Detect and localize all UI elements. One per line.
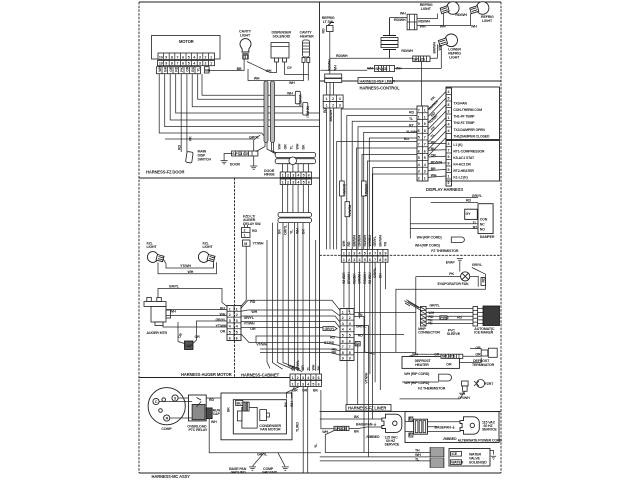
svg-text:6: 6 xyxy=(318,383,320,387)
door connector strip row1 xyxy=(280,172,311,178)
svg-text:BK: BK xyxy=(332,351,337,355)
svg-text:CAP: CAP xyxy=(213,412,221,416)
evap ground xyxy=(457,259,463,272)
svg-text:RD/WH: RD/WH xyxy=(336,54,348,58)
svg-text:HARNESS-FZ DOOR: HARNESS-FZ DOOR xyxy=(146,170,184,175)
svg-text:CAP: CAP xyxy=(185,344,193,348)
wires to damper contacts xyxy=(410,224,478,229)
svg-text:HARNESS-REF LINER: HARNESS-REF LINER xyxy=(360,79,396,83)
svg-text:K1-L2 (K): K1-L2 (K) xyxy=(453,176,467,180)
svg-text:TH2-FZ TEMP: TH2-FZ TEMP xyxy=(453,121,475,125)
bk cell top xyxy=(409,417,413,421)
svg-text:2: 2 xyxy=(244,229,246,233)
svg-text:7: 7 xyxy=(424,143,426,147)
svg-text:9: 9 xyxy=(385,251,387,255)
svg-text:1: 1 xyxy=(342,310,344,314)
svg-text:RD: RD xyxy=(322,28,326,33)
svg-text:1: 1 xyxy=(210,55,212,59)
svg-text:4: 4 xyxy=(297,181,299,185)
rip cord pill 1 xyxy=(451,237,464,242)
svg-text:HARNESS-FZ LINER: HARNESS-FZ LINER xyxy=(348,406,386,411)
svg-text:PTC RELAY: PTC RELAY xyxy=(189,428,208,432)
svg-text:GR/YL: GR/YL xyxy=(430,304,441,308)
svg-text:HARNESS-MC ASSY: HARNESS-MC ASSY xyxy=(152,474,191,479)
svg-text:GR/YL: GR/YL xyxy=(472,263,483,267)
svg-text:1: 1 xyxy=(244,234,246,238)
cabinet horizontal wire gr/yl xyxy=(241,316,340,322)
wire wh run y68.5 xyxy=(320,69,367,71)
svg-text:4: 4 xyxy=(448,90,450,94)
svg-text:YL/WH: YL/WH xyxy=(406,130,417,134)
wire vt/wh long vertical xyxy=(357,344,359,406)
svg-text:8: 8 xyxy=(171,55,173,59)
svg-text:TN: TN xyxy=(358,313,363,317)
comp m mark xyxy=(162,398,166,402)
wire comp s to relay xyxy=(178,397,188,399)
svg-text:1: 1 xyxy=(418,115,420,119)
comp terminal S xyxy=(172,395,178,401)
wire sp3 left xyxy=(367,68,375,70)
svg-text:RD/WH: RD/WH xyxy=(418,20,430,24)
wire gr/yl to splice xyxy=(254,135,261,151)
valve ground xyxy=(490,451,496,460)
svg-text:AUGER MTR: AUGER MTR xyxy=(147,331,168,335)
svg-text:GR(Y): GR(Y) xyxy=(325,327,335,331)
svg-text:2: 2 xyxy=(448,181,450,185)
wire rd to switch xyxy=(180,74,182,152)
svg-text:2: 2 xyxy=(348,251,350,255)
svg-text:WH: WH xyxy=(266,69,272,73)
cavity light bulb B1 xyxy=(240,39,251,59)
svg-text:COMP: COMP xyxy=(161,427,172,431)
svg-text:OR: OR xyxy=(185,66,189,72)
svg-text:9: 9 xyxy=(424,122,426,126)
svg-text:WH (RIP CORD): WH (RIP CORD) xyxy=(415,244,441,248)
svg-text:3: 3 xyxy=(339,104,341,108)
svg-text:6: 6 xyxy=(342,339,344,343)
svg-text:TX3-FAN: TX3-FAN xyxy=(453,102,467,106)
svg-text:GROUND: GROUND xyxy=(231,471,247,475)
svg-text:DAMPER: DAMPER xyxy=(480,235,495,239)
icemaker pin strip xyxy=(473,307,478,327)
water cell xyxy=(451,460,464,465)
svg-text:WH: WH xyxy=(342,240,346,246)
condenser outer box xyxy=(221,393,292,440)
wire heater or right xyxy=(459,358,481,363)
wire fzl wh xyxy=(158,262,217,274)
wire auger 315 xyxy=(166,315,227,317)
svg-text:1: 1 xyxy=(292,376,294,380)
wire run y120 xyxy=(170,74,319,120)
wire gr/yl auger xyxy=(158,289,227,307)
svg-text:FZRT: FZRT xyxy=(485,382,495,386)
svg-text:6: 6 xyxy=(424,149,426,153)
run capacitor cap box xyxy=(185,341,194,350)
svg-text:4: 4 xyxy=(236,325,238,329)
svg-text:7: 7 xyxy=(342,345,344,349)
svg-text:2: 2 xyxy=(287,174,289,178)
section border fz-liner bottom xyxy=(320,411,502,413)
svg-text:9: 9 xyxy=(418,122,420,126)
svg-text:WH (RIP CORD): WH (RIP CORD) xyxy=(404,372,430,376)
svg-text:SERVICE: SERVICE xyxy=(385,443,400,447)
svg-text:6: 6 xyxy=(369,258,371,262)
svg-text:FZ THERMISTOR: FZ THERMISTOR xyxy=(431,249,459,253)
icemaker link lines xyxy=(478,309,483,324)
svg-text:3: 3 xyxy=(349,322,351,326)
svg-text:7: 7 xyxy=(418,143,420,147)
svg-text:RD/WH: RD/WH xyxy=(431,160,443,164)
cabinet wire labels below vertical xyxy=(278,224,306,235)
svg-text:7: 7 xyxy=(177,55,179,59)
svg-text:10: 10 xyxy=(159,55,163,59)
section border auger/cabinet divider xyxy=(234,178,236,378)
svg-text:HEATER: HEATER xyxy=(415,363,429,367)
wires connector to lower pins xyxy=(428,143,446,177)
liner connector bars xyxy=(325,74,342,83)
wire connector to cond box verticals xyxy=(287,387,300,399)
cabinet wire rd3 xyxy=(260,349,340,351)
svg-text:RD: RD xyxy=(466,199,471,203)
wire fan right xyxy=(470,276,478,286)
hinge wire labels vertical xyxy=(278,143,306,149)
svg-text:DOOR: DOOR xyxy=(230,163,241,167)
wire relay bottom down xyxy=(209,419,321,453)
svg-text:3: 3 xyxy=(229,319,231,323)
svg-text:SPL|CE: SPL|CE xyxy=(335,427,348,431)
svg-text:OR: OR xyxy=(220,330,226,334)
capacitor stack C1 xyxy=(381,18,398,59)
svg-text:1: 1 xyxy=(448,116,450,120)
svg-text:1: 1 xyxy=(210,62,212,66)
svg-text:WH: WH xyxy=(278,143,282,149)
svg-text:3: 3 xyxy=(418,170,420,174)
svg-text:GY: GY xyxy=(287,66,293,70)
liner pin drops xyxy=(344,262,386,390)
svg-text:GROUND: GROUND xyxy=(262,471,278,475)
svg-text:3: 3 xyxy=(353,251,355,255)
liner connector top labels vertical xyxy=(342,234,388,246)
svg-text:8: 8 xyxy=(342,351,344,355)
filter box xyxy=(414,419,428,434)
svg-text:BR/WH: BR/WH xyxy=(352,235,356,247)
control pin cells column xyxy=(446,88,452,186)
svg-text:2: 2 xyxy=(418,177,420,181)
svg-text:6: 6 xyxy=(308,174,310,178)
wire filter wires xyxy=(405,419,461,432)
liner connector bottom labels vertical xyxy=(342,267,382,284)
wire auger down cap xyxy=(177,322,179,342)
control row wires upper bends xyxy=(341,109,417,249)
svg-text:4: 4 xyxy=(359,258,361,262)
refrig light switch S2 xyxy=(327,23,335,32)
svg-text:3: 3 xyxy=(424,170,426,174)
splice SP3 xyxy=(375,66,395,72)
svg-text:3: 3 xyxy=(302,383,304,387)
wires mhp to icemaker xyxy=(426,309,473,324)
svg-text:3: 3 xyxy=(292,181,294,185)
base pan ground xyxy=(249,467,256,470)
svg-text:WH: WH xyxy=(290,401,294,407)
label RD vertical evap xyxy=(481,277,486,285)
svg-text:9: 9 xyxy=(342,357,344,361)
svg-text:NO: NO xyxy=(480,227,485,231)
mhp connector strip xyxy=(420,307,426,327)
damper assembly wires top xyxy=(410,197,478,199)
svg-text:1: 1 xyxy=(424,115,426,119)
splice SP2 xyxy=(413,56,430,62)
svg-text:5: 5 xyxy=(448,155,450,159)
svg-text:BU: BU xyxy=(431,147,436,151)
svg-text:4: 4 xyxy=(342,328,344,332)
svg-text:2: 2 xyxy=(297,383,299,387)
svg-text:6: 6 xyxy=(308,181,310,185)
svg-text:WH: WH xyxy=(287,91,293,95)
dispenser solenoid L1 xyxy=(271,43,289,63)
svg-text:OR/YL: OR/YL xyxy=(296,359,300,370)
motor connector strip row1 pins 10-1 xyxy=(158,53,215,60)
svg-text:1: 1 xyxy=(448,175,450,179)
svg-text:SPL I CE: SPL I CE xyxy=(442,355,456,359)
svg-text:RD: RD xyxy=(177,145,181,150)
svg-text:6: 6 xyxy=(236,336,238,340)
svg-text:8: 8 xyxy=(171,62,173,66)
svg-text:K4-AC2 DR: K4-AC2 DR xyxy=(453,162,471,166)
svg-text:TH: TH xyxy=(415,449,420,453)
svg-text:VT/WH: VT/WH xyxy=(364,372,368,383)
relay switch diagonal xyxy=(197,398,202,407)
control left connector xyxy=(417,106,428,181)
svg-text:3: 3 xyxy=(448,110,450,114)
cabinet bar 3 xyxy=(278,213,312,218)
svg-text:LIGHT: LIGHT xyxy=(203,245,214,249)
svg-text:TN: TN xyxy=(384,241,388,246)
svg-text:SLEEVE: SLEEVE xyxy=(447,332,461,336)
section border cabinet bottom xyxy=(139,377,321,379)
wires hinge to strip xyxy=(283,164,309,172)
frame top border xyxy=(139,1,501,3)
cabinet horizontal wire rd xyxy=(241,300,340,310)
svg-text:RD/WH: RD/WH xyxy=(394,18,406,22)
labels above bottom connector vertical xyxy=(291,359,321,370)
fan run capsule xyxy=(260,410,270,421)
svg-text:BASEPAN-⏚: BASEPAN-⏚ xyxy=(435,424,456,429)
svg-text:LIGHT: LIGHT xyxy=(482,19,493,23)
svg-text:WH: WH xyxy=(251,310,257,314)
svg-text:1: 1 xyxy=(282,174,284,178)
svg-text:3: 3 xyxy=(199,62,201,66)
svg-text:RD: RD xyxy=(358,334,363,338)
cabinet horizontal wire or xyxy=(241,327,323,329)
auger delay sw connector xyxy=(242,228,251,238)
boxed label GR(Y) xyxy=(323,327,337,332)
svg-text:BK: BK xyxy=(302,144,306,149)
svg-text:3: 3 xyxy=(302,376,304,380)
svg-text:6: 6 xyxy=(349,339,351,343)
boxed label DI xyxy=(355,342,360,347)
svg-text:ALTERNATE POWER CORD: ALTERNATE POWER CORD xyxy=(458,438,503,442)
cabinet bottom connector row1 xyxy=(290,374,322,380)
ground splice xyxy=(250,156,257,169)
section border center vertical xyxy=(319,2,321,378)
svg-text:RD: RD xyxy=(431,140,436,144)
svg-text:5: 5 xyxy=(188,55,190,59)
svg-text:6: 6 xyxy=(182,62,184,66)
svg-text:LIGHT: LIGHT xyxy=(421,7,432,11)
wire terminator top xyxy=(470,349,481,351)
svg-text:RD: RD xyxy=(409,111,414,115)
svg-text:EVAP: EVAP xyxy=(446,261,456,265)
svg-text:-RIBBED: -RIBBED xyxy=(443,437,457,441)
svg-text:1: 1 xyxy=(236,307,238,311)
svg-text:5: 5 xyxy=(364,251,366,255)
svg-text:HINGE: HINGE xyxy=(264,173,275,177)
svg-text:HARNESS-CABINET: HARNESS-CABINET xyxy=(241,373,280,378)
condenser inner box xyxy=(233,400,286,434)
svg-text:WH: WH xyxy=(158,65,162,71)
svg-text:4: 4 xyxy=(448,142,450,146)
svg-text:WH/BU: WH/BU xyxy=(368,235,372,247)
svg-text:BR: BR xyxy=(431,167,436,171)
svg-text:OR: OR xyxy=(475,352,481,356)
fzl light 1 bulb B5 xyxy=(147,252,164,263)
power plug 1 xyxy=(382,414,402,432)
svg-text:EVAPORATOR FAN: EVAPORATOR FAN xyxy=(438,282,469,286)
svg-text:OR: OR xyxy=(475,346,481,350)
bk cell bottom xyxy=(409,433,413,437)
splice SP5 xyxy=(334,426,349,431)
rip cord pill 2 xyxy=(439,374,452,381)
motor connector strip row2 pins 10-1 xyxy=(158,61,215,66)
svg-text:BK: BK xyxy=(354,415,359,419)
svg-text:RD/WH: RD/WH xyxy=(401,49,413,53)
svg-text:1: 1 xyxy=(424,177,426,181)
svg-text:4: 4 xyxy=(297,174,299,178)
wire heater splice left xyxy=(409,354,441,356)
svg-text:RD/WH: RD/WH xyxy=(328,59,332,71)
svg-text:CONNECTOR: CONNECTOR xyxy=(418,331,440,335)
svg-text:-RIBBED: -RIBBED xyxy=(366,435,380,439)
svg-text:SERVICE: SERVICE xyxy=(482,428,497,432)
svg-text:5: 5 xyxy=(236,331,238,335)
svg-text:2: 2 xyxy=(205,55,207,59)
striped tube bottom xyxy=(430,458,444,468)
svg-text:HARNESS-CONTROL: HARNESS-CONTROL xyxy=(360,86,401,91)
motor wire label cells row xyxy=(157,65,211,73)
svg-text:RD: RD xyxy=(330,335,335,339)
section border ref-liner bottom xyxy=(320,80,502,82)
svg-text:SPL|CE: SPL|CE xyxy=(375,67,388,71)
svg-text:4: 4 xyxy=(359,251,361,255)
defrost terminator RT xyxy=(481,348,497,357)
motor M1 box xyxy=(152,36,221,60)
svg-text:LT SW: LT SW xyxy=(323,20,334,24)
svg-text:OR: OR xyxy=(250,327,256,331)
svg-text:VT/WH: VT/WH xyxy=(256,342,267,346)
svg-text:RD: RD xyxy=(252,229,257,233)
frame right border xyxy=(500,2,502,473)
svg-text:8: 8 xyxy=(448,103,450,107)
wire cap up right xyxy=(193,321,227,344)
control board text list xyxy=(453,102,490,180)
wire rd/wh run y58 xyxy=(330,57,438,59)
svg-text:2: 2 xyxy=(342,316,344,320)
conduit gr/yl braid xyxy=(404,300,422,311)
svg-text:TH1(DAMPER CLOSED: TH1(DAMPER CLOSED xyxy=(453,134,490,138)
svg-text:RD: RD xyxy=(482,277,486,282)
wire splice right to terminator xyxy=(463,355,481,357)
wires th wh tl xyxy=(320,431,430,461)
svg-text:RD/WH: RD/WH xyxy=(347,205,351,217)
cabinet horizontal wire wh xyxy=(241,310,340,316)
cabinet left connector C2 xyxy=(227,306,241,341)
wire c3 bottom down xyxy=(346,361,348,405)
svg-text:7: 7 xyxy=(349,345,351,349)
svg-text:7: 7 xyxy=(448,149,450,153)
gy box xyxy=(465,209,478,219)
wire sp3 right to lower bulb xyxy=(395,68,442,70)
svg-text:HEATER: HEATER xyxy=(300,35,314,39)
svg-text:TL/RD: TL/RD xyxy=(295,422,299,432)
svg-text:RD: RD xyxy=(250,300,255,304)
wire fzl right down xyxy=(213,264,215,269)
svg-text:OR: OR xyxy=(446,363,452,367)
svg-text:2: 2 xyxy=(348,258,350,262)
svg-text:OR: OR xyxy=(301,365,305,371)
wire bundle bar left xyxy=(264,81,268,143)
wire run y107 xyxy=(192,74,303,107)
svg-text:GR/YL: GR/YL xyxy=(244,316,255,320)
section border fz-liner top dashed xyxy=(320,254,502,256)
svg-text:DELAY SW.: DELAY SW. xyxy=(243,222,261,226)
wire lower bulb leads down xyxy=(438,45,442,69)
control bundle verticals from small connector xyxy=(327,101,340,249)
svg-text:OR: OR xyxy=(431,154,437,158)
svg-text:GR/YL: GR/YL xyxy=(356,325,367,329)
svg-text:2: 2 xyxy=(205,62,207,66)
svg-text:4: 4 xyxy=(307,383,309,387)
svg-text:RD/WH: RD/WH xyxy=(363,235,367,247)
door connector strip row2 xyxy=(280,179,311,185)
svg-text:3: 3 xyxy=(199,55,201,59)
wire m down xyxy=(241,246,246,306)
svg-text:RT2-HEATER: RT2-HEATER xyxy=(453,169,474,173)
svg-text:7: 7 xyxy=(374,258,376,262)
m box xyxy=(243,240,251,246)
svg-text:BK: BK xyxy=(354,430,359,434)
boxed label BK/WH on wire xyxy=(340,181,346,196)
svg-text:WH: WH xyxy=(188,270,194,274)
svg-text:BK: BK xyxy=(313,389,318,393)
wire auger bk xyxy=(163,326,227,328)
wire run y127 xyxy=(165,74,320,127)
svg-text:4: 4 xyxy=(448,123,450,127)
svg-text:RD: RD xyxy=(209,398,214,402)
svg-text:RT1-COMPRESSOR: RT1-COMPRESSOR xyxy=(453,149,485,153)
condenser fan motor symbol xyxy=(237,402,257,428)
svg-text:WH: WH xyxy=(420,24,426,28)
lower refrig light bulb B4 xyxy=(439,34,458,47)
wire cap left xyxy=(178,342,185,344)
wire labels left of connector xyxy=(404,111,443,178)
svg-text:SOLENOID: SOLENOID xyxy=(273,35,291,39)
svg-text:TH1-FF TEMP: TH1-FF TEMP xyxy=(453,115,475,119)
top connector j-box xyxy=(407,14,417,30)
svg-text:9: 9 xyxy=(385,258,387,262)
wire run y113 xyxy=(176,74,320,113)
svg-text:6: 6 xyxy=(229,336,231,340)
svg-text:1: 1 xyxy=(292,383,294,387)
